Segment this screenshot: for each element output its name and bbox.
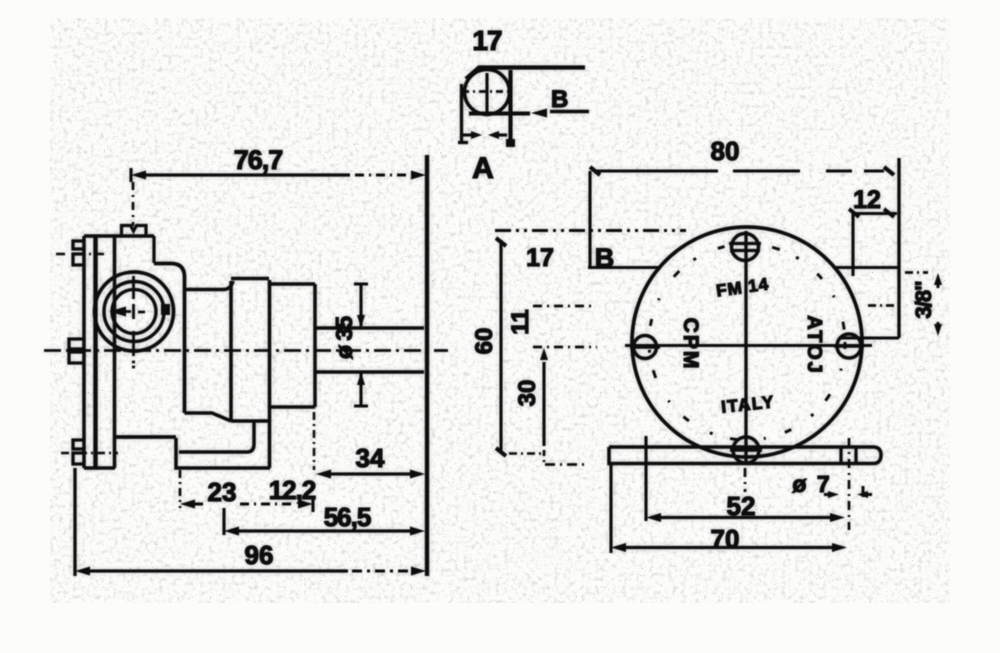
scan halo <box>44 25 942 576</box>
ink <box>44 25 942 576</box>
